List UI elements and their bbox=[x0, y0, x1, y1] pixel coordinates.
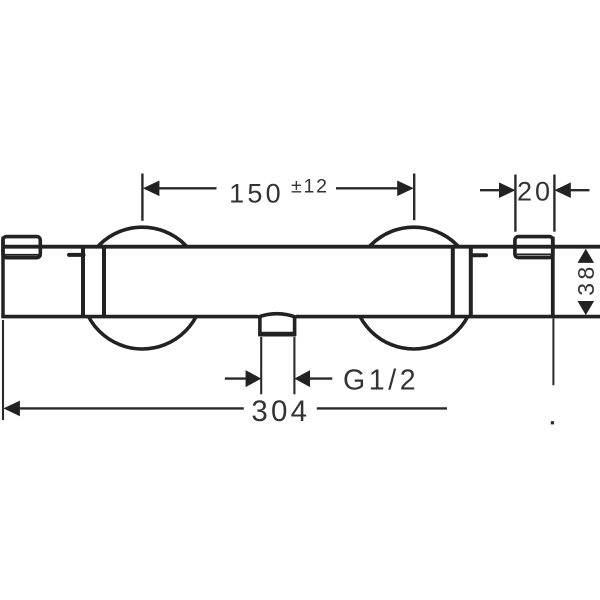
body right end line bbox=[551, 237, 555, 318]
right tick bbox=[472, 253, 487, 257]
dim 20: right extension line bbox=[553, 175, 555, 232]
body bottom edge left segment bbox=[1, 315, 258, 319]
svg-text:304: 304 bbox=[251, 395, 310, 428]
svg-text:±12: ±12 bbox=[291, 175, 329, 197]
body left end line bbox=[1, 237, 5, 318]
dim 150: right arrow bbox=[397, 181, 414, 197]
dim 304: right extension line bbox=[552, 319, 554, 386]
dim 304: right arrow remnant dot bbox=[551, 421, 554, 424]
dim 150: right extension line bbox=[413, 174, 415, 221]
body mask bbox=[1, 247, 554, 317]
dim 304: left arrow bbox=[3, 401, 20, 417]
dim 20: left extension line bbox=[514, 175, 516, 232]
dim 20: right arrow bbox=[554, 182, 570, 198]
dim 38: down arrow bbox=[578, 301, 595, 315]
dim 38: up arrow bbox=[578, 249, 595, 263]
left collar line 2 bbox=[102, 247, 106, 317]
outlet dome bbox=[257, 314, 296, 318]
dim 150: line left segment bbox=[158, 187, 217, 189]
body top edge line (runs through both unions and continues right as extension line) bbox=[5, 245, 600, 249]
left tick bbox=[69, 253, 84, 257]
right collar line 1 bbox=[451, 247, 455, 317]
dim 150: left extension line bbox=[141, 174, 143, 221]
dim 20: left arrow bbox=[499, 182, 515, 198]
left handle circle bbox=[81, 227, 203, 349]
dim 20: right tail bbox=[570, 189, 590, 191]
body bottom edge right segment + extension bbox=[296, 315, 600, 319]
outlet right extension line bbox=[293, 337, 295, 394]
svg-text:150: 150 bbox=[229, 178, 284, 208]
dim 20: left tail bbox=[480, 189, 500, 191]
outlet box bbox=[260, 317, 295, 335]
dim 150: line right segment bbox=[336, 187, 399, 189]
dim G1/2: right arrow bbox=[294, 370, 310, 387]
right handle circle bbox=[353, 227, 475, 349]
dim G1/2: left arrow bbox=[246, 370, 262, 387]
right wall union box bbox=[515, 237, 553, 258]
right union thin line bbox=[517, 253, 551, 255]
dim 304: left extension line bbox=[2, 320, 4, 420]
svg-text:G1/2: G1/2 bbox=[343, 364, 419, 396]
dim 304: line right segment bbox=[317, 407, 447, 409]
left union thin line bbox=[5, 254, 39, 256]
left collar line 1 bbox=[81, 247, 85, 317]
left wall union box bbox=[3, 237, 40, 258]
svg-text:20: 20 bbox=[517, 177, 553, 207]
dim G1/2: right tail bbox=[309, 377, 332, 379]
outlet box bottom thick bbox=[258, 332, 296, 337]
dim G1/2: left tail bbox=[225, 377, 247, 379]
dim 304: line left segment bbox=[19, 407, 244, 409]
svg-text:38: 38 bbox=[573, 263, 599, 296]
right collar line 2 bbox=[469, 247, 473, 317]
dim 150: left arrow bbox=[143, 181, 160, 197]
outlet left extension line bbox=[260, 337, 262, 394]
